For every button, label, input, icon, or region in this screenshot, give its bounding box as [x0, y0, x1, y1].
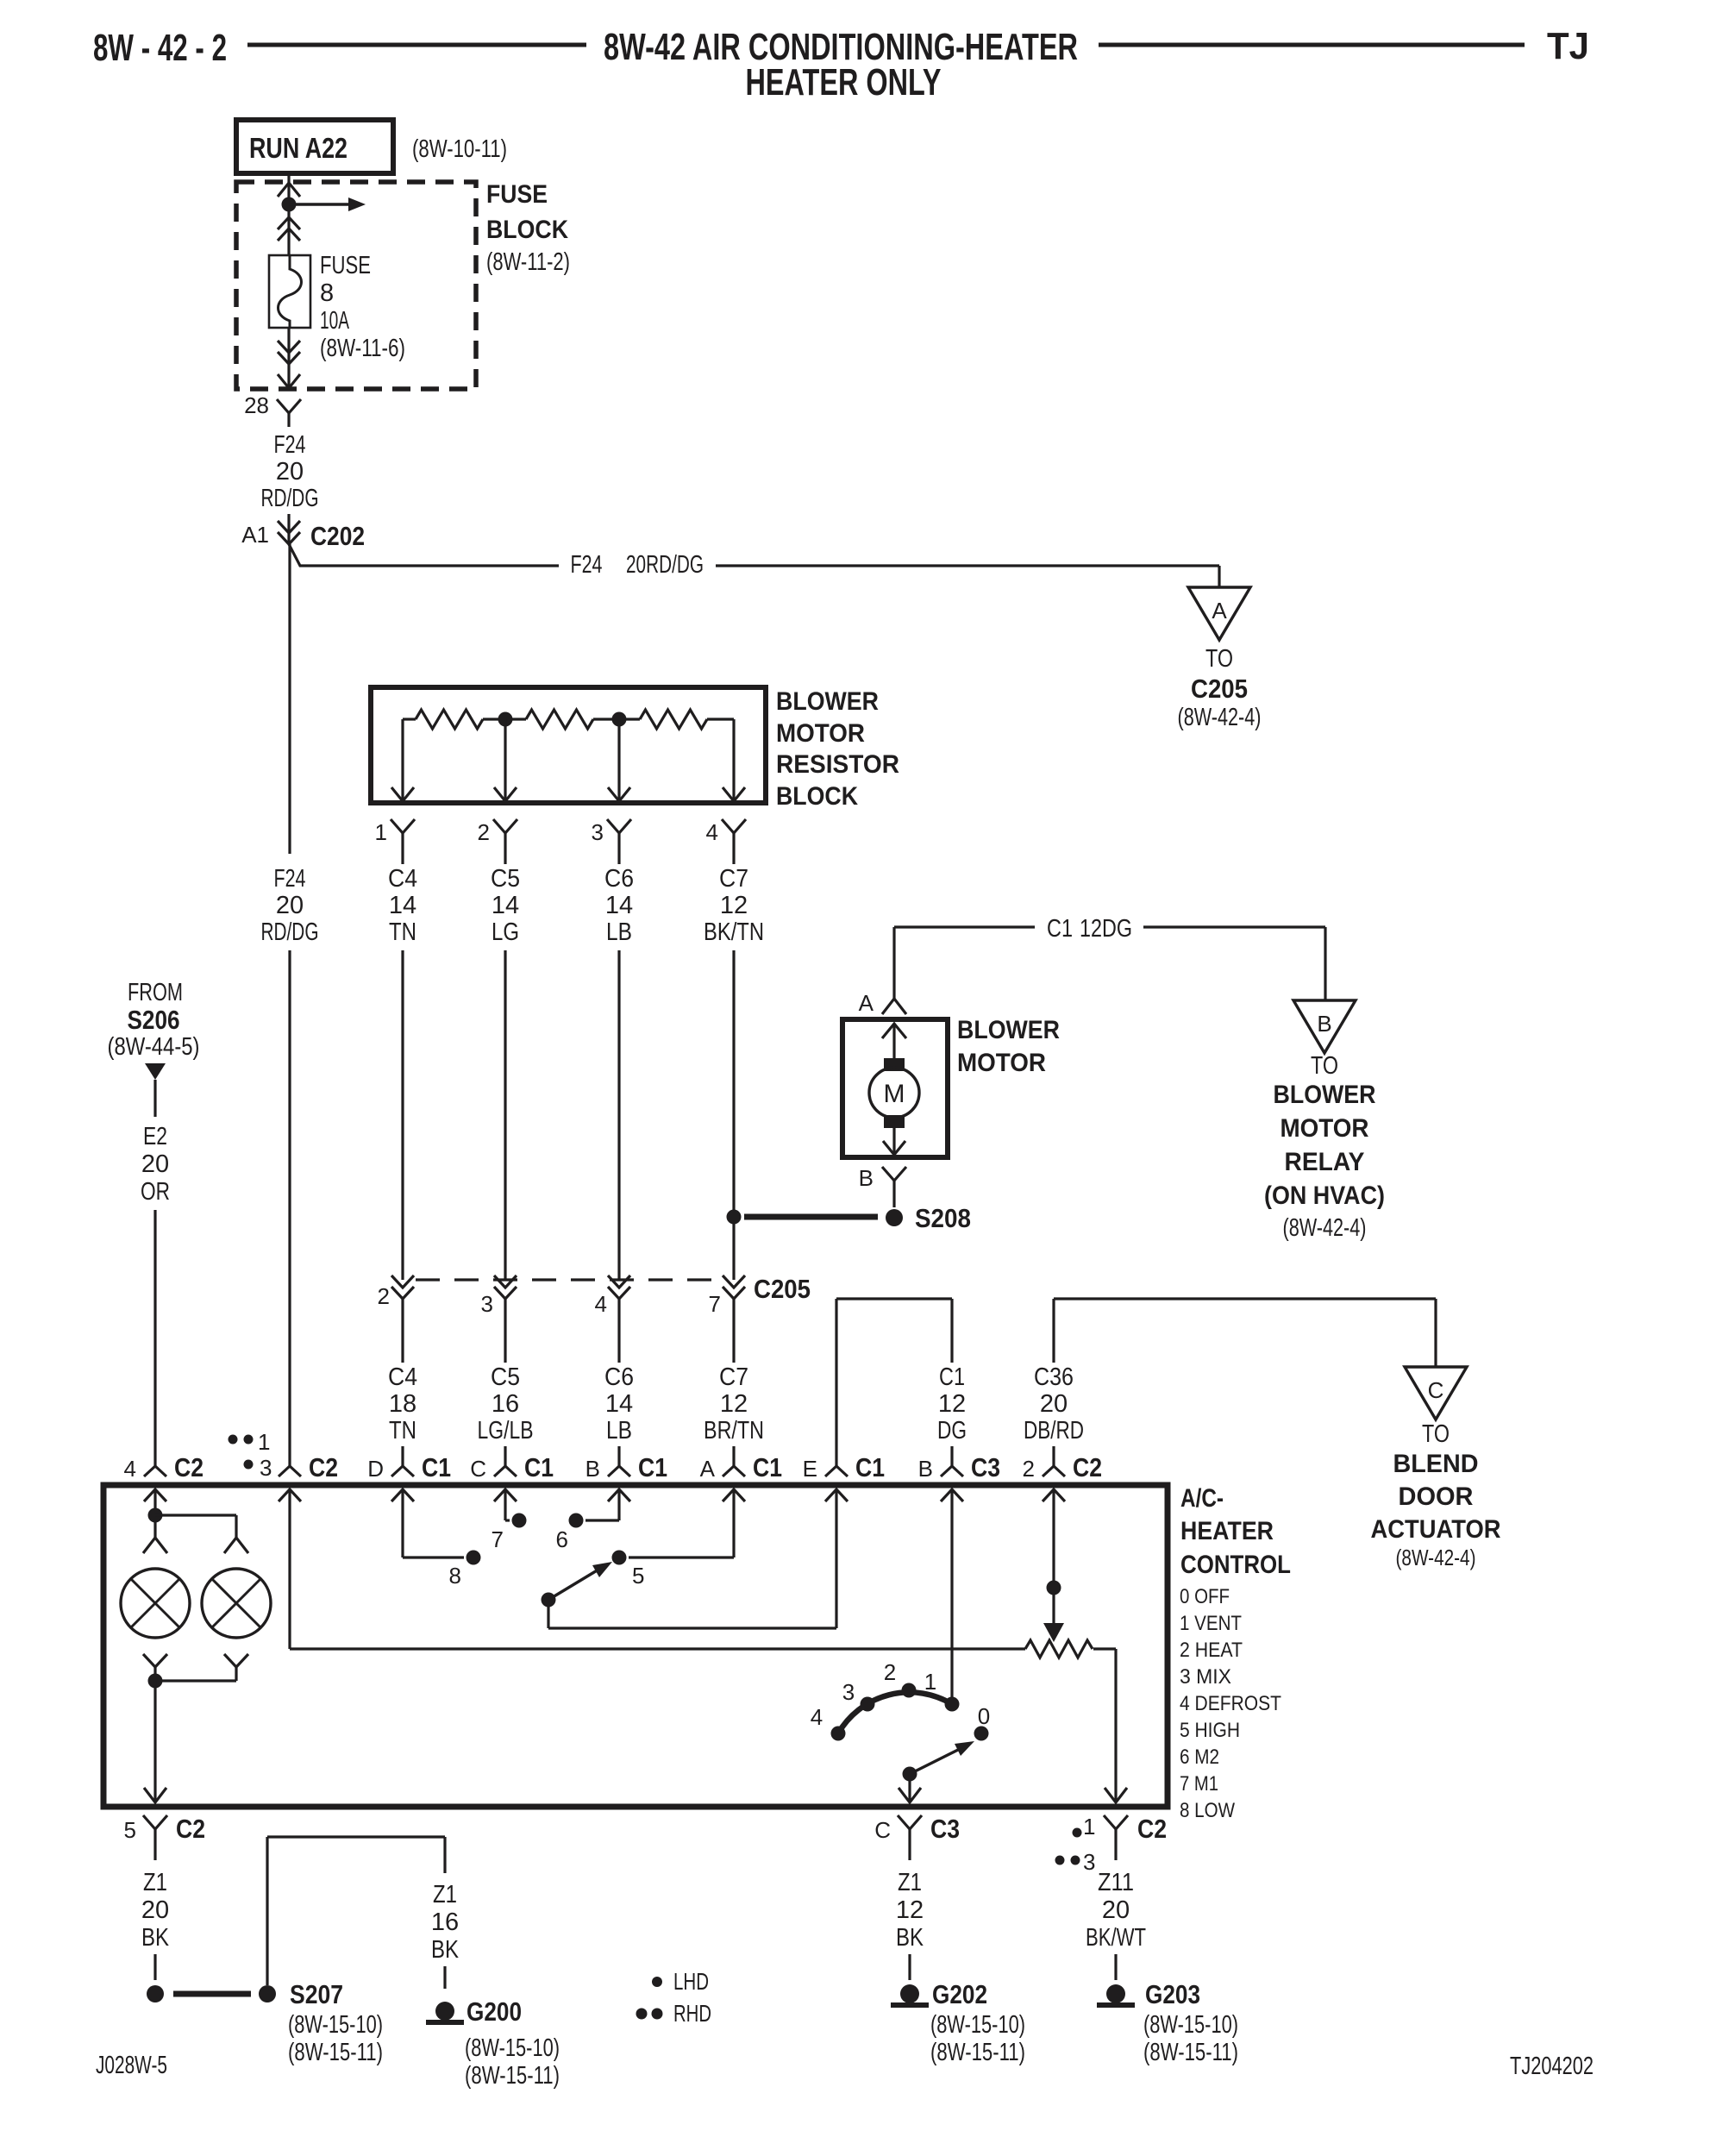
blower motor label	[957, 1016, 1060, 1077]
wire resistor pin 4	[723, 719, 745, 802]
wire C6 below C205	[617, 1299, 620, 1363]
svg-text:A: A	[1212, 598, 1227, 624]
svg-text:4: 4	[124, 1456, 136, 1482]
connector C202 label	[310, 521, 365, 551]
header rule right	[1099, 43, 1525, 47]
svg-text:MOTOR: MOTOR	[776, 719, 865, 748]
connector C205 dashed line	[416, 1278, 721, 1281]
svg-text:(8W-15-11): (8W-15-11)	[1143, 2039, 1238, 2066]
fuse label FUSE 8 10A (8W-11-6)	[320, 252, 405, 362]
motor brush bottom	[884, 1115, 905, 1128]
motor M armature	[869, 1068, 919, 1118]
connector pin A C1 at control top	[700, 1446, 782, 1482]
svg-text:8W - 42 - 2: 8W - 42 - 2	[93, 27, 227, 69]
illumination lamp 1	[121, 1569, 190, 1638]
wire Z1 to G202	[908, 1954, 911, 1980]
resistor lead right	[707, 718, 734, 720]
resistor element 2	[483, 710, 593, 729]
connector pin D C1 at control top	[367, 1446, 451, 1482]
svg-text:10A: 10A	[320, 307, 349, 335]
svg-text:C1: C1	[939, 1363, 965, 1391]
svg-text:C2: C2	[309, 1452, 338, 1482]
wire label Z1 16 BK	[431, 1881, 460, 1964]
wire pin D to contact 8	[403, 1489, 464, 1557]
page number label 8W-42-2	[93, 27, 227, 69]
connector pin 1 fork below resistor block	[375, 819, 415, 864]
wire C7 down to C205	[732, 950, 735, 1280]
lamp terminal chevrons	[143, 1538, 248, 1553]
svg-text:(8W-15-11): (8W-15-11)	[288, 2039, 383, 2066]
wire to C202	[287, 514, 290, 544]
svg-text:B: B	[585, 1456, 600, 1482]
svg-text:C5: C5	[491, 865, 520, 893]
svg-text:ACTUATOR: ACTUATOR	[1371, 1515, 1501, 1544]
svg-text:3 MIX: 3 MIX	[1180, 1665, 1231, 1689]
reference (8W-15-10) (8W-15-11) for G203	[1143, 2011, 1238, 2066]
svg-text:A: A	[700, 1456, 716, 1482]
svg-text:18: 18	[389, 1390, 416, 1418]
svg-text:LG: LG	[492, 918, 519, 946]
sheet code TJ204202	[1510, 2053, 1594, 2080]
svg-text:C2: C2	[1137, 1814, 1167, 1844]
svg-text:A/C-: A/C-	[1180, 1484, 1224, 1513]
svg-text:7: 7	[492, 1526, 504, 1552]
svg-text:DB/RD: DB/RD	[1024, 1417, 1084, 1445]
junction dot resistor tap 3	[612, 712, 627, 727]
svg-text:C: C	[470, 1456, 486, 1482]
svg-text:2: 2	[478, 819, 490, 845]
svg-text:20: 20	[141, 1896, 169, 1924]
svg-text:F24: F24	[571, 551, 603, 579]
svg-text:C5: C5	[491, 1363, 520, 1391]
wire motor B to S208	[892, 1194, 895, 1207]
svg-text:B: B	[918, 1456, 933, 1482]
svg-text:(8W-15-11): (8W-15-11)	[930, 2039, 1025, 2066]
svg-text:C6: C6	[604, 1363, 634, 1391]
svg-text:BK: BK	[896, 1924, 924, 1952]
svg-text:(8W-15-10): (8W-15-10)	[930, 2011, 1025, 2039]
connector pin B C3 at control top	[918, 1446, 1000, 1482]
svg-text:(8W-11-6): (8W-11-6)	[320, 335, 405, 362]
wire label C36 20 DB/RD	[1024, 1363, 1084, 1445]
connector pin 1 C2 at control bottom	[1104, 1814, 1167, 1860]
pin A1 label	[241, 522, 269, 548]
off-page note TO C205 (8W-42-4)	[1178, 645, 1262, 731]
off-page note TO BLEND DOOR ACTUATOR	[1371, 1420, 1501, 1570]
wire label C5 14 LG	[491, 865, 520, 946]
legend RHD	[636, 2000, 712, 2027]
config dots RHD pin 1 at C2	[229, 1429, 271, 1455]
svg-text:20: 20	[1040, 1390, 1068, 1418]
connector pin 2 C2 at control top	[1023, 1446, 1102, 1482]
svg-text:C1: C1	[855, 1452, 885, 1482]
svg-text:2: 2	[884, 1659, 896, 1685]
svg-text:3: 3	[260, 1455, 272, 1481]
wire label C6 14 LB	[604, 1363, 634, 1445]
svg-text:DOOR: DOOR	[1399, 1482, 1474, 1511]
resistor element 1	[403, 710, 483, 729]
terminal arrow inside control for pin D C1	[391, 1489, 414, 1501]
svg-text:0: 0	[978, 1703, 990, 1729]
svg-text:12DG: 12DG	[1080, 915, 1132, 943]
svg-text:FROM: FROM	[128, 979, 183, 1006]
svg-text:5 HIGH: 5 HIGH	[1180, 1719, 1240, 1742]
connector C205 pin 3	[481, 1275, 517, 1317]
mode contact 0	[974, 1703, 991, 1741]
inline connector double chevron below fuse	[278, 341, 300, 364]
svg-text:F24: F24	[274, 865, 306, 893]
svg-text:HEATER: HEATER	[1180, 1517, 1274, 1545]
reference (8W-10-11)	[412, 135, 507, 163]
svg-text:BK: BK	[431, 1936, 460, 1964]
ground G200	[426, 1996, 522, 2027]
svg-text:BLOWER: BLOWER	[776, 687, 879, 716]
motor brush top	[884, 1058, 905, 1071]
config dot LHD pin 1 at bottom C2	[1073, 1814, 1096, 1839]
arrow feed to other circuits	[289, 197, 366, 211]
reference (8W-15-10) (8W-15-11) for G202	[930, 2011, 1025, 2066]
svg-text:20: 20	[276, 458, 304, 486]
terminal arrow inside control for pin B C1	[608, 1489, 630, 1501]
mode switch wiper	[903, 1741, 975, 1782]
svg-text:28: 28	[244, 392, 269, 418]
wire branch from C202 to off-page A	[289, 544, 1219, 587]
fuse block label FUSE BLOCK (8W-11-2)	[486, 180, 570, 276]
svg-text:A1: A1	[241, 522, 269, 548]
wire S207 to G200	[267, 1837, 445, 1985]
connector pin 5 C2 at control bottom	[124, 1814, 205, 1860]
terminal arrow inside control for pin C2	[279, 1489, 301, 1501]
connector pin E C1 at control top	[803, 1446, 885, 1482]
svg-text:2: 2	[378, 1283, 390, 1309]
wire label C7 12 BK/TN	[704, 865, 764, 946]
svg-text:TJ: TJ	[1547, 25, 1589, 67]
svg-text:G200: G200	[467, 1996, 522, 2027]
svg-text:Z1: Z1	[898, 1869, 922, 1896]
wire motor return	[883, 1128, 905, 1156]
svg-text:1 VENT: 1 VENT	[1180, 1612, 1242, 1635]
svg-text:(8W-42-4): (8W-42-4)	[1396, 1545, 1476, 1570]
svg-text:12: 12	[938, 1390, 966, 1418]
wire resistor pin 2	[494, 719, 517, 802]
svg-text:20: 20	[141, 1150, 169, 1178]
svg-text:8: 8	[320, 279, 334, 307]
A/C-heater control outline	[103, 1485, 1168, 1807]
connector pin 28 fork	[277, 399, 301, 427]
wire resistor pin 1	[391, 719, 414, 802]
svg-text:(8W-11-2): (8W-11-2)	[486, 248, 570, 276]
svg-text:2: 2	[1023, 1456, 1035, 1482]
wire E C1 loop	[836, 1299, 952, 1446]
svg-text:(8W-15-10): (8W-15-10)	[1143, 2011, 1238, 2039]
svg-text:C3: C3	[930, 1814, 960, 1844]
svg-text:14: 14	[605, 892, 633, 919]
wire pin E to fan wiper	[548, 1489, 836, 1628]
svg-text:(8W-15-10): (8W-15-10)	[465, 2034, 560, 2062]
connector pin C2 at control top	[279, 1446, 338, 1482]
svg-text:3: 3	[481, 1291, 493, 1317]
svg-text:CONTROL: CONTROL	[1180, 1551, 1291, 1579]
A/C-heater control label	[1180, 1484, 1291, 1579]
svg-text:(8W-15-11): (8W-15-11)	[465, 2062, 560, 2090]
svg-text:14: 14	[389, 892, 416, 919]
junction dot resistor tap 2	[498, 712, 513, 727]
svg-text:C1: C1	[638, 1452, 667, 1482]
wire F24 from C202 down	[288, 544, 291, 854]
wire Z11 to G203	[1114, 1954, 1117, 1980]
wire C6 down to C205	[617, 950, 620, 1280]
mode contact 1	[924, 1669, 960, 1712]
svg-text:3: 3	[842, 1679, 855, 1705]
switch contact 6	[556, 1514, 584, 1553]
svg-text:3: 3	[592, 819, 604, 845]
svg-text:BLOWER: BLOWER	[1274, 1081, 1376, 1109]
svg-text:G202: G202	[932, 1979, 987, 2009]
wire pin 2 C2 to pot wiper	[1043, 1489, 1064, 1642]
wire label C6 14 LB	[604, 865, 634, 946]
svg-text:7 M1: 7 M1	[1180, 1772, 1218, 1796]
wire Z1 to S207	[153, 1954, 156, 1980]
svg-text:LG/LB: LG/LB	[478, 1417, 534, 1445]
terminal arrow inside control for pin B C3	[941, 1489, 963, 1501]
wire label C4 18 TN	[388, 1363, 417, 1445]
wire label Z11 20 BK/WT	[1086, 1869, 1146, 1952]
svg-text:BK/TN: BK/TN	[704, 918, 764, 946]
svg-text:C205: C205	[754, 1274, 811, 1304]
svg-text:F24: F24	[274, 431, 306, 459]
svg-text:TO: TO	[1422, 1420, 1450, 1448]
svg-text:RELAY: RELAY	[1285, 1148, 1365, 1176]
svg-text:TO: TO	[1205, 645, 1233, 673]
svg-text:MOTOR: MOTOR	[957, 1049, 1046, 1077]
terminal arrow inside control for pin E C1	[825, 1489, 848, 1501]
connector pin 4 C2 at control top	[124, 1446, 204, 1482]
svg-text:C: C	[1428, 1377, 1444, 1403]
header rule left	[247, 43, 586, 47]
svg-text:TJ204202: TJ204202	[1510, 2053, 1594, 2080]
terminal arrow inside control for pin 4 C2	[144, 1489, 166, 1501]
svg-text:C1: C1	[753, 1452, 782, 1482]
svg-text:C2: C2	[1073, 1452, 1102, 1482]
mode contact 4	[811, 1704, 846, 1741]
wire wiper to pin C C3	[899, 1774, 921, 1802]
reference (8W-15-10) (8W-15-11) for G200	[465, 2034, 560, 2090]
wire label C1 12DG	[1047, 915, 1132, 943]
wire label F24 20RD/DG	[571, 551, 704, 579]
svg-text:LHD: LHD	[673, 1968, 709, 1995]
svg-text:12: 12	[896, 1896, 924, 1924]
svg-text:S206: S206	[128, 1005, 180, 1035]
svg-text:C1: C1	[1047, 915, 1073, 943]
svg-text:RUN A22: RUN A22	[249, 132, 348, 164]
wire pin B to contact 6	[585, 1489, 619, 1520]
svg-text:C2: C2	[176, 1814, 205, 1844]
connector pin 3 fork below resistor block	[592, 819, 631, 864]
wire E2 from S206	[153, 1080, 156, 1117]
off-page source FROM S206 (8W-44-5)	[108, 979, 200, 1080]
svg-text:4 DEFROST: 4 DEFROST	[1180, 1692, 1281, 1715]
svg-text:BLOCK: BLOCK	[776, 782, 858, 811]
svg-text:C202: C202	[310, 521, 365, 551]
svg-text:DG: DG	[937, 1417, 967, 1445]
reference (8W-15-10) (8W-15-11) for S207	[288, 2011, 383, 2066]
fuse block dashed outline	[236, 182, 476, 389]
wire C1 to blower motor relay	[1143, 927, 1325, 1000]
svg-text:1: 1	[375, 819, 387, 845]
connector pin B C1 at control top	[585, 1446, 667, 1482]
svg-text:8 LOW: 8 LOW	[1180, 1799, 1235, 1822]
svg-text:BK/WT: BK/WT	[1086, 1924, 1146, 1952]
off-page connector A	[1188, 587, 1250, 640]
svg-text:B: B	[859, 1165, 874, 1191]
svg-text:RD/DG: RD/DG	[261, 918, 319, 946]
svg-text:RD/DG: RD/DG	[261, 485, 319, 512]
svg-text:FUSE: FUSE	[486, 180, 548, 209]
wire pin A to contact 5	[629, 1489, 734, 1557]
svg-text:16: 16	[431, 1908, 459, 1936]
wire label F24 20 RD/DG	[261, 865, 319, 946]
junction dot in fuse block	[282, 197, 297, 212]
svg-text:Z1: Z1	[143, 1869, 167, 1896]
blower motor pin A	[859, 990, 906, 1016]
wire motor feed	[882, 1024, 906, 1059]
svg-text:(8W-44-5): (8W-44-5)	[108, 1033, 200, 1061]
svg-text:C36: C36	[1034, 1363, 1074, 1391]
wire lamps to pin 5	[144, 1674, 236, 1803]
lamp bottom forks	[143, 1654, 248, 1681]
svg-text:C6: C6	[604, 865, 634, 893]
svg-text:D: D	[367, 1456, 384, 1482]
svg-text:J028W-5: J028W-5	[96, 2052, 167, 2079]
wire C5 down to C205	[504, 950, 506, 1280]
fan switch wiper	[542, 1562, 613, 1608]
svg-text:5: 5	[124, 1817, 136, 1843]
wire pot to pin 1 C2	[1093, 1649, 1127, 1802]
wire fuse to block edge	[287, 328, 290, 389]
wire C7 below C205	[732, 1299, 735, 1363]
svg-text:HEATER ONLY: HEATER ONLY	[746, 61, 942, 103]
connector C205 pin 4	[595, 1275, 630, 1317]
connector C202 double chevron	[278, 521, 300, 544]
svg-text:LB: LB	[606, 1417, 632, 1445]
svg-text:C2: C2	[174, 1452, 204, 1482]
resistor element 3	[593, 710, 707, 729]
connector pin C C3 at control bottom	[874, 1814, 960, 1860]
svg-text:14: 14	[492, 892, 519, 919]
svg-text:BR/TN: BR/TN	[704, 1417, 764, 1445]
svg-text:4: 4	[595, 1291, 607, 1317]
svg-text:BLEND: BLEND	[1393, 1450, 1479, 1478]
svg-text:C7: C7	[719, 865, 748, 893]
svg-text:1: 1	[924, 1669, 936, 1695]
svg-text:LB: LB	[606, 918, 632, 946]
svg-text:C205: C205	[1191, 674, 1248, 704]
svg-text:C3: C3	[971, 1452, 1000, 1482]
switch contact 8	[449, 1551, 481, 1589]
wire C1 12DG from motor pin A	[894, 927, 1035, 999]
svg-text:1: 1	[258, 1429, 270, 1455]
svg-text:FUSE: FUSE	[320, 252, 371, 279]
switch contact 7	[492, 1514, 527, 1553]
config dot LHD pin 3 at C2	[244, 1455, 272, 1481]
svg-text:C4: C4	[388, 865, 417, 893]
wire label E2 20 OR	[141, 1123, 170, 1206]
wire pin C to contact 7	[505, 1489, 510, 1520]
connector chevron at fuse block bottom edge	[278, 374, 300, 388]
svg-text:2 HEAT: 2 HEAT	[1180, 1639, 1243, 1662]
mode contact 2	[884, 1659, 917, 1698]
wire label Z1 20 BK	[141, 1869, 170, 1952]
svg-text:16: 16	[492, 1390, 519, 1418]
svg-text:M: M	[884, 1080, 905, 1108]
connector pin 4 fork below resistor block	[706, 819, 746, 864]
blend potentiometer	[1025, 1640, 1093, 1658]
wire label C1 12 DG	[937, 1363, 967, 1445]
svg-text:(8W-42-4): (8W-42-4)	[1283, 1214, 1367, 1242]
svg-text:20: 20	[276, 892, 304, 919]
svg-text:MOTOR: MOTOR	[1281, 1114, 1369, 1143]
svg-text:14: 14	[605, 1390, 633, 1418]
svg-text:S207: S207	[290, 1979, 343, 2009]
svg-text:C: C	[874, 1817, 891, 1843]
svg-text:E2: E2	[143, 1123, 167, 1150]
off-page connector B	[1293, 1000, 1356, 1053]
inline connector double chevron	[278, 217, 300, 241]
connector pin 2 fork below resistor block	[478, 819, 517, 864]
svg-text:C1: C1	[422, 1452, 451, 1482]
svg-text:(ON HVAC): (ON HVAC)	[1264, 1181, 1385, 1210]
ground G203	[1097, 1979, 1200, 2009]
title 8W-42 AIR CONDITIONING-HEATER	[604, 26, 1078, 68]
mode list labels	[1180, 1585, 1281, 1822]
svg-text:12: 12	[720, 1390, 748, 1418]
svg-text:8: 8	[449, 1563, 461, 1589]
svg-text:12: 12	[720, 892, 748, 919]
splice S208	[727, 1203, 972, 1233]
svg-text:1: 1	[1083, 1814, 1095, 1839]
wire C36 to blend door actuator	[1054, 1299, 1436, 1367]
svg-text:20: 20	[1102, 1896, 1130, 1924]
sheet code J028W-5	[96, 2052, 167, 2079]
svg-text:B: B	[1317, 1011, 1331, 1037]
connector C205 label	[754, 1274, 811, 1304]
svg-text:(8W-15-10): (8W-15-10)	[288, 2011, 383, 2039]
svg-text:G203: G203	[1145, 1979, 1200, 2009]
svg-text:TN: TN	[389, 1417, 416, 1445]
svg-text:BLOWER: BLOWER	[957, 1016, 1060, 1044]
pin 28 label	[244, 392, 269, 418]
wire pin B C3 to contact 1	[950, 1489, 953, 1701]
svg-text:7: 7	[709, 1291, 721, 1317]
wire label Z1 12 BK	[896, 1869, 924, 1952]
wire RUN A22 to fuse	[287, 173, 290, 255]
svg-text:RESISTOR: RESISTOR	[776, 750, 899, 779]
svg-text:(8W-10-11): (8W-10-11)	[412, 135, 507, 163]
svg-text:0 OFF: 0 OFF	[1180, 1585, 1230, 1608]
wire label C4 14 TN	[388, 865, 417, 946]
blower motor resistor block outline	[371, 687, 766, 803]
wire label C7 12 BR/TN	[704, 1363, 764, 1445]
svg-text:C4: C4	[388, 1363, 417, 1391]
svg-text:6 M2: 6 M2	[1180, 1745, 1219, 1769]
terminal arrow inside control for pin C C1	[494, 1489, 517, 1501]
terminal arrow inside control for pin A C1	[723, 1489, 745, 1501]
wire E2 down to control pin 4	[153, 1210, 156, 1446]
illumination lamp 2	[202, 1569, 271, 1638]
off-page note TO BLOWER MOTOR RELAY	[1264, 1052, 1385, 1242]
svg-text:4: 4	[811, 1704, 823, 1730]
node RUN A22	[236, 120, 393, 173]
